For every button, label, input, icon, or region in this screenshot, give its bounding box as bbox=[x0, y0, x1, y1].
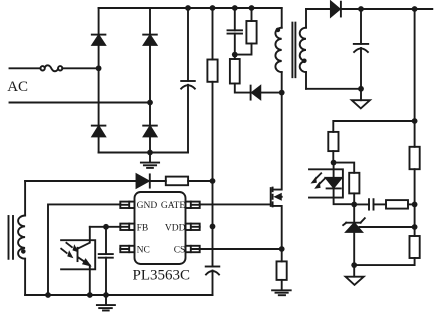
resistor R3 snubber lower bbox=[230, 55, 251, 93]
capacitor C5 output bbox=[354, 9, 368, 89]
node AC1-bridge bbox=[96, 65, 102, 71]
wire gnd pin branch bbox=[48, 204, 120, 295]
node output cap top bbox=[358, 6, 364, 12]
wire secondary top rail bbox=[306, 8, 432, 10]
ground bridge bbox=[141, 153, 159, 168]
transformer aux core bbox=[9, 216, 14, 259]
pin VDD bbox=[186, 224, 200, 230]
svg-text:NC: NC bbox=[137, 246, 150, 256]
op IC U1 PL3563C body bbox=[135, 192, 186, 264]
wire top rail bbox=[99, 7, 282, 9]
node bridge bottom bbox=[147, 150, 153, 156]
pin CS bbox=[186, 246, 200, 252]
node gnd rail bbox=[45, 292, 51, 298]
node vdd line top bbox=[210, 178, 216, 184]
node secondary phase dot bbox=[302, 59, 307, 64]
node vdd pin bbox=[210, 224, 216, 230]
node primary bottom bbox=[279, 90, 285, 96]
node CS bbox=[279, 246, 285, 252]
node top rail snubber R bbox=[249, 5, 255, 11]
diode D6 aux bbox=[137, 174, 150, 187]
transformer aux winding bbox=[18, 181, 25, 295]
diode D1 bbox=[92, 35, 106, 45]
node secondary ground bbox=[358, 86, 364, 92]
transformer T1 core bbox=[292, 23, 295, 78]
wire bridge bottom rail bbox=[99, 152, 188, 154]
transformer T1 primary winding bbox=[275, 8, 281, 93]
pin GND bbox=[120, 202, 134, 208]
capacitor C6 comp bbox=[354, 199, 386, 209]
pin NC bbox=[120, 246, 134, 252]
node comp net right bbox=[412, 202, 418, 208]
capacitor C3 vdd bbox=[206, 267, 220, 296]
svg-text:AC: AC bbox=[7, 79, 28, 95]
diode D3 bbox=[92, 126, 106, 137]
wire aux top bbox=[25, 180, 136, 182]
node top rail bulk cap bbox=[185, 5, 191, 11]
diode D2 bbox=[143, 35, 157, 45]
node opto led top bbox=[331, 160, 337, 166]
TL431 U3 bbox=[343, 204, 414, 265]
svg-text:CS: CS bbox=[174, 246, 186, 256]
wire AC line 1 bbox=[10, 67, 99, 69]
diode D7 output bbox=[331, 2, 341, 17]
node snubber joint bbox=[232, 52, 238, 58]
ground output (triangle) bbox=[352, 89, 370, 109]
opto U2 transistor arrows bbox=[61, 243, 77, 258]
opto U2 transistor box bbox=[61, 240, 95, 269]
capacitor C1 bulk bbox=[181, 8, 195, 153]
node comp net left bbox=[351, 202, 357, 208]
wire bridge right leg bbox=[149, 8, 151, 153]
ground sense bbox=[272, 280, 291, 295]
resistor R5 sense bbox=[277, 249, 287, 280]
node AC2-bridge bbox=[147, 100, 153, 106]
wire CS bbox=[200, 248, 282, 250]
opto U2 phototransistor bbox=[78, 227, 90, 295]
svg-text:PL3563C: PL3563C bbox=[133, 268, 191, 284]
capacitor C4 fb bbox=[99, 227, 113, 295]
node primary phase dot bbox=[276, 28, 281, 33]
node opto emitter rail bbox=[87, 292, 93, 298]
wire led-parallel R top bbox=[334, 163, 355, 173]
wire AC line 2 bbox=[10, 102, 151, 104]
node aux phase dot bbox=[21, 249, 26, 254]
svg-text:VDD: VDD bbox=[165, 224, 186, 234]
node top rail startup R bbox=[210, 5, 216, 11]
opto U2 LED bbox=[326, 163, 354, 205]
diode D5 clamp bbox=[251, 86, 282, 100]
node ref right bbox=[412, 224, 418, 230]
node top rail snubber C bbox=[232, 5, 238, 11]
wire bridge left leg bbox=[98, 8, 100, 153]
resistor R7 divider lower bbox=[410, 236, 420, 258]
svg-text:GND: GND bbox=[137, 201, 158, 211]
diode D4 bbox=[143, 126, 157, 137]
opto U2 LED arrows bbox=[312, 173, 325, 188]
node fb cap rail bbox=[103, 292, 109, 298]
pin FB bbox=[120, 224, 134, 230]
opto U2 LED box bbox=[309, 169, 343, 197]
pin GATE bbox=[186, 202, 200, 208]
resistor R4 aux bbox=[150, 177, 213, 186]
wire secondary bottom bbox=[306, 88, 361, 90]
wire vdd line bbox=[212, 181, 214, 266]
svg-text:GATE: GATE bbox=[161, 201, 185, 211]
transformer T1 secondary winding bbox=[300, 9, 306, 89]
wire gate bbox=[200, 203, 271, 205]
node right column fb tap bbox=[412, 118, 418, 124]
node FB cap top bbox=[103, 224, 109, 230]
resistor R10 comp bbox=[386, 200, 415, 209]
MOSFET Q1 bbox=[271, 93, 282, 249]
ground bottom bbox=[97, 295, 115, 311]
capacitor C2 snubber bbox=[228, 8, 243, 55]
svg-text:FB: FB bbox=[137, 224, 149, 234]
resistor R2 snubber bbox=[235, 8, 257, 55]
fuse F1 bbox=[40, 65, 62, 71]
wire fb top bbox=[333, 121, 414, 132]
resistor R8 opto series bbox=[328, 132, 338, 163]
node output rail right bbox=[412, 6, 418, 12]
resistor R6 divider upper bbox=[410, 147, 420, 169]
resistor R9 opto parallel bbox=[349, 173, 359, 205]
wire right column bbox=[354, 9, 414, 265]
wire FB bbox=[90, 226, 121, 228]
ground tl431 (triangle) bbox=[346, 265, 364, 285]
wire bottom rail bbox=[25, 294, 212, 296]
resistor R1 startup bbox=[207, 8, 217, 181]
node tl431 anode bbox=[351, 262, 357, 268]
